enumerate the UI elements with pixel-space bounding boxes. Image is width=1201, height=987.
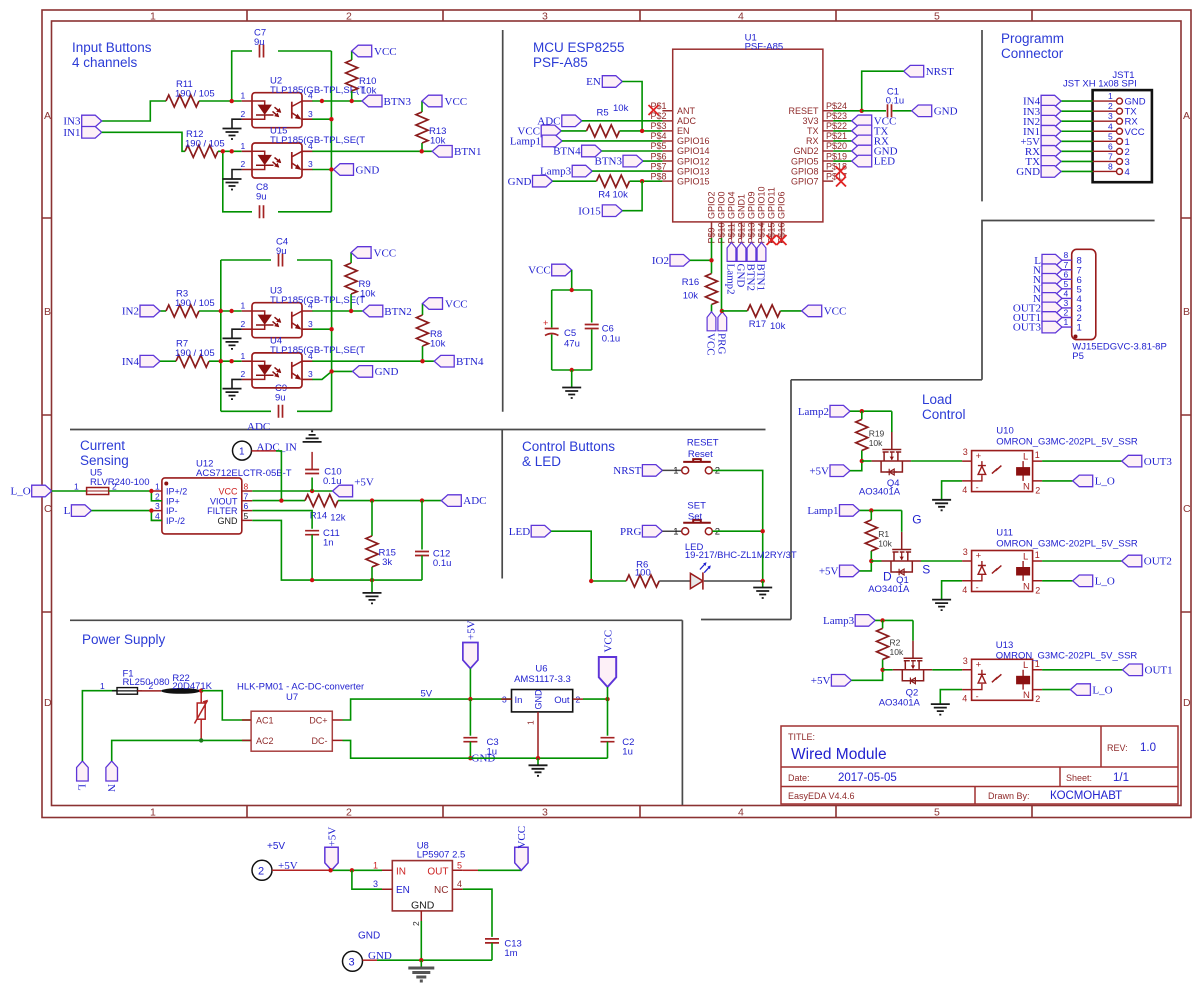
U1 bottom pin names rotated [707, 186, 787, 219]
svg-text:8: 8 [244, 482, 249, 492]
svg-text:Programm: Programm [1001, 31, 1064, 46]
svg-text:+5V: +5V [354, 477, 374, 489]
node SET rail [761, 529, 765, 533]
ruler tick top [247, 10, 1032, 21]
wire U5 to pins 1,2 [109, 491, 162, 501]
ground gray [420, 960, 422, 967]
svg-text:1: 1 [239, 446, 245, 457]
svg-text:Lamp1: Lamp1 [510, 136, 541, 148]
optocoupler U3 [241, 301, 314, 338]
resistor R19 [861, 411, 863, 461]
wire node to mosfet [883, 669, 893, 671]
U7 pin stubs [242, 720, 343, 740]
ground [363, 593, 382, 604]
net flag ADC [562, 115, 582, 127]
wire VCC down [607, 687, 609, 699]
net flag N p6 [1042, 274, 1062, 286]
wire R16 to VCC flag [711, 305, 713, 312]
wire R12 to U15 pin1 [218, 150, 242, 152]
svg-text:Date:: Date: [788, 773, 810, 783]
ground row2 [932, 600, 951, 611]
resistor R1 [870, 510, 872, 561]
svg-text:+5V: +5V [465, 620, 477, 640]
net flag VCC vertical [515, 847, 528, 870]
wire mosfet to U10 pin3 [911, 460, 962, 462]
svg-text:3: 3 [1108, 111, 1113, 121]
svg-text:RL250-080: RL250-080 [123, 677, 170, 688]
wire U4 pin4 to BTN4 [312, 360, 434, 362]
svg-text:GPIO4: GPIO4 [727, 191, 737, 219]
svg-text:Control: Control [922, 407, 966, 422]
node varistor/AC2 green [199, 738, 203, 742]
node C12 top [420, 498, 424, 502]
wire U2 pin4 to BTN3 [312, 100, 362, 102]
net flag +5V vertical [463, 643, 478, 669]
svg-text:GND: GND [508, 176, 532, 188]
net flag +5V [1041, 136, 1061, 148]
svg-text:R19: R19 [869, 428, 885, 438]
net flag Lamp2 [830, 405, 850, 417]
U1 left pin names [677, 106, 710, 186]
svg-text:P$24: P$24 [826, 101, 847, 111]
svg-text:LED: LED [509, 526, 530, 538]
svg-text:5: 5 [934, 807, 940, 819]
svg-text:4: 4 [1125, 167, 1130, 178]
node +5V/5V rail [468, 697, 472, 701]
svg-text:10k: 10k [869, 438, 883, 448]
svg-text:Control Buttons: Control Buttons [522, 439, 615, 454]
net flag Lamp2 under P$11 [727, 242, 736, 261]
svg-text:S: S [922, 563, 930, 577]
svg-text:OUT3: OUT3 [1144, 456, 1173, 468]
node P$8 [640, 179, 644, 183]
wire VIOUT pin7 [252, 500, 305, 502]
wire fuse to varistor [138, 690, 162, 692]
net flag IN1 [82, 127, 102, 139]
net flag IN2 [1041, 115, 1061, 127]
net flag VCC [552, 264, 572, 276]
ground under U15 pin2 [232, 170, 242, 180]
net flag VCC right of R17 [802, 305, 822, 317]
svg-text:IN1: IN1 [63, 127, 80, 139]
svg-text:PRG: PRG [620, 526, 641, 538]
net flag VCC (R5) [541, 125, 561, 137]
wire Lamp3 to P$7 [592, 170, 662, 172]
svg-text:Set: Set [688, 512, 703, 523]
net flag PRG [642, 525, 662, 537]
svg-text:VCC: VCC [374, 46, 397, 58]
wire P$9 down through R16 [711, 238, 713, 274]
svg-text:TX: TX [807, 126, 819, 136]
net flag IN1 [1041, 125, 1061, 137]
svg-text:MCU ESP8255: MCU ESP8255 [533, 40, 625, 55]
wire U15 pin3 to GND flag [312, 169, 333, 171]
net flag IN4 [1041, 95, 1061, 107]
svg-text:IN2: IN2 [122, 306, 139, 318]
wire L_O to U5 [52, 490, 87, 492]
node LED corner [589, 579, 593, 583]
svg-text:L: L [76, 784, 88, 791]
svg-text:OMRON_G3MC-202PL_5V_SSR: OMRON_G3MC-202PL_5V_SSR [996, 436, 1138, 447]
svg-text:R1: R1 [878, 529, 889, 539]
svg-text:IP-: IP- [166, 506, 178, 516]
node IO2/P$9 [709, 258, 713, 262]
svg-text:SET: SET [687, 501, 706, 512]
net flag BTN4 [434, 355, 454, 367]
svg-text:R5: R5 [597, 107, 609, 118]
net flag TX [1041, 156, 1061, 168]
wire OUT to VCC [463, 869, 478, 871]
wire VCC to R5 [561, 130, 586, 132]
net flag Lamp3 [572, 165, 592, 177]
wire VCC pin8 to +5V [252, 490, 332, 492]
resistor R6 [626, 575, 659, 587]
port circle 3 [343, 951, 363, 971]
svg-text:GND: GND [375, 366, 399, 378]
U1 bottom pin stubs [712, 222, 782, 243]
net flag NRST [904, 65, 924, 77]
net flag +5V [333, 485, 353, 497]
svg-text:1: 1 [1077, 323, 1082, 334]
wire ground stub [762, 581, 764, 588]
P5 inner numbers [1077, 256, 1082, 334]
U1 right pin names [788, 106, 819, 186]
svg-text:Drawn By:: Drawn By: [988, 791, 1030, 801]
net flag IN2 [140, 305, 160, 317]
wire +5V to node [860, 561, 872, 571]
divider input/mcu [502, 30, 504, 412]
svg-text:U11: U11 [996, 528, 1013, 539]
wire bottom rail with C9 [221, 410, 332, 412]
net flag VCC vertical [707, 312, 716, 331]
resistor R13 [421, 101, 423, 151]
net flag VCC above R8 [423, 298, 443, 310]
wire +5V to node [850, 461, 862, 471]
svg-text:AO3401A: AO3401A [868, 584, 910, 595]
varistor R22 element [195, 691, 208, 741]
svg-text:10k: 10k [770, 321, 786, 332]
svg-text:2: 2 [346, 807, 352, 819]
regulator U6 AMS1117-3.3 [512, 690, 573, 712]
wire P$24 to C1 [862, 110, 886, 112]
svg-text:N: N [105, 784, 117, 792]
node +5V flag [328, 868, 332, 872]
capacitor C10 [311, 478, 313, 492]
wire R14 to ADC flag [338, 500, 441, 502]
transistor Q2 AO3401A [893, 641, 933, 684]
net flag Lamp3 [855, 615, 875, 627]
svg-text:GPIO8: GPIO8 [791, 166, 819, 176]
relay U13 [962, 656, 1042, 704]
net flag GND (R4) [533, 175, 553, 187]
divider bottom of control buttons [701, 619, 791, 621]
svg-text:GPIO16: GPIO16 [677, 136, 710, 146]
node VCC/C2 [605, 697, 609, 701]
svg-text:HLK-PM01 - AC-DC-converter: HLK-PM01 - AC-DC-converter [237, 682, 364, 693]
U8 pin stubs [382, 870, 463, 921]
capacitor C7 [252, 28, 278, 58]
ground under U2 pin2 [232, 119, 242, 128]
no-connect X on P$16 [777, 235, 787, 245]
wire U3 pin3 to rail [312, 328, 331, 330]
svg-text:D: D [883, 570, 892, 584]
net flag IN4 [140, 355, 160, 367]
svg-text:+5V: +5V [267, 841, 285, 852]
svg-text:R4: R4 [598, 189, 610, 200]
svg-text:In: In [515, 695, 523, 706]
svg-text:1: 1 [150, 11, 156, 23]
node pin3 [149, 508, 153, 512]
wire IO2 to P$9 [690, 259, 712, 261]
net flag L vertical [77, 761, 89, 781]
svg-text:EN: EN [396, 885, 410, 896]
svg-text:2: 2 [346, 11, 352, 23]
ground under U4 pin2 [232, 379, 242, 388]
ruler tick left [42, 218, 52, 612]
net flag IO15 [602, 205, 622, 217]
wire C1 to GND flag [893, 110, 912, 112]
svg-text:10k: 10k [430, 339, 446, 350]
svg-text:BTN4: BTN4 [456, 356, 484, 368]
net flag N p7 [1042, 264, 1062, 276]
optocoupler U15 [241, 141, 314, 178]
net flag RX [1041, 146, 1061, 158]
svg-text:5: 5 [1064, 279, 1069, 289]
net flag L_O row1 [1073, 475, 1093, 487]
net flag L [1042, 254, 1062, 266]
svg-text:PSF-A85: PSF-A85 [533, 55, 588, 70]
wire DC- to bottom rail [343, 740, 608, 758]
wire U11 L to OUT2 [1042, 560, 1122, 562]
svg-text:IN4: IN4 [122, 356, 140, 368]
wire IN4 to R7 [160, 360, 176, 362]
P5 outer pin numbers [1064, 250, 1069, 327]
net flag OUT2 [1042, 302, 1062, 314]
converter U7 [251, 711, 332, 751]
no-connect X on P$15 [767, 235, 777, 245]
svg-text:3: 3 [542, 11, 548, 23]
svg-text:P$14: P$14 [756, 222, 766, 243]
wire U10 N to L_O [1042, 480, 1073, 482]
svg-text:VCC: VCC [824, 306, 847, 318]
node rail R15 [370, 578, 374, 582]
U1 left pin stubs [662, 111, 672, 181]
capacitor C1 [888, 104, 892, 117]
net flag VCC above R13 [422, 95, 442, 107]
net flag BTN3 [362, 95, 382, 107]
net flag L [71, 505, 91, 517]
net flag OUT1 [1123, 664, 1143, 676]
svg-text:U13: U13 [996, 640, 1013, 651]
svg-text:6: 6 [1064, 269, 1069, 279]
svg-text:GPIO6: GPIO6 [777, 191, 787, 219]
svg-text:B: B [44, 306, 51, 318]
svg-text:LP5907 2.5: LP5907 2.5 [417, 850, 466, 861]
wire U13 pin4 to ground [940, 690, 962, 705]
node C3 rail [468, 756, 472, 760]
svg-text:1u: 1u [622, 747, 633, 758]
net flag VCC vertical [599, 657, 616, 687]
svg-text:GPIO9: GPIO9 [747, 191, 757, 219]
net flag OUT3 [1122, 455, 1142, 467]
wire mosfet to U11 pin3 [921, 560, 962, 562]
net flag BTN3 [623, 155, 643, 167]
net flag BTN2 under P$13 [747, 242, 756, 261]
node Lamp1/R1 [869, 508, 873, 512]
svg-text:1/1: 1/1 [1113, 772, 1129, 784]
svg-text:B: B [1183, 306, 1190, 318]
resistor R15 [371, 501, 373, 536]
junction nodes group B [219, 309, 223, 313]
wire R3 to U3 pin1 [199, 310, 242, 312]
no-connect X on P$18 [836, 166, 846, 176]
wire R17 to VCC [780, 310, 801, 312]
svg-text:PSF-A85: PSF-A85 [745, 41, 784, 52]
net flag LED P$19 [852, 155, 872, 167]
svg-text:2: 2 [149, 681, 154, 691]
svg-text:OUT: OUT [427, 866, 448, 877]
svg-text:P$20: P$20 [826, 141, 847, 151]
svg-text:DC+: DC+ [309, 716, 327, 726]
svg-text:7: 7 [244, 491, 249, 501]
node P$3 [640, 129, 644, 133]
net flag GND group B [353, 366, 373, 378]
svg-text:3: 3 [542, 807, 548, 819]
wire EN branch [352, 870, 382, 889]
resistor R8 [422, 304, 424, 362]
svg-text:U10: U10 [996, 426, 1013, 437]
resistor R16 [706, 274, 718, 305]
wire Lamp2 to gate [850, 411, 892, 432]
net flag N p4 [1042, 293, 1062, 305]
ground power [529, 765, 548, 776]
net flag EN [602, 76, 622, 88]
fuse F1 RL250-080 [117, 688, 138, 695]
svg-text:2: 2 [258, 865, 264, 877]
wire R11 to U2 pin1 [199, 100, 242, 102]
svg-text:1: 1 [150, 807, 156, 819]
svg-text:GPIO11: GPIO11 [767, 187, 777, 219]
no-connect X on P$1 [649, 105, 659, 115]
svg-text:Current: Current [80, 438, 125, 453]
wire SET to right rail [713, 531, 763, 581]
svg-text:GPIO13: GPIO13 [677, 166, 710, 176]
svg-text:P$11: P$11 [726, 223, 736, 243]
svg-text:A: A [44, 110, 51, 122]
svg-text:R17: R17 [749, 319, 766, 330]
wire Lamp1 to gate [860, 510, 902, 532]
svg-text:Lamp1: Lamp1 [807, 505, 838, 517]
resistor R11 [166, 95, 199, 107]
svg-text:C: C [1183, 503, 1191, 515]
wire P$10 down to PRG [721, 238, 723, 312]
node bottom rail [570, 368, 574, 372]
U6 pin stubs [501, 699, 583, 722]
net flag N vertical [106, 761, 118, 781]
port circle 2 [252, 860, 272, 880]
svg-text:U6: U6 [535, 663, 547, 674]
svg-text:C5: C5 [564, 328, 576, 339]
net flag +5V row3 [831, 675, 851, 687]
svg-text:Wired Module: Wired Module [791, 746, 887, 763]
net flag BTN2 [363, 305, 383, 317]
svg-text:190 / 105: 190 / 105 [175, 348, 215, 359]
net flag OUT1 [1042, 312, 1062, 324]
wire Lamp3 to gate [875, 620, 913, 640]
wire to ground [571, 370, 573, 388]
divider right of power supply [681, 620, 683, 805]
P5 pin1 mark [1074, 335, 1078, 339]
flipped ground above C10 [303, 431, 322, 442]
svg-text:КОСМОНАВТ: КОСМОНАВТ [1050, 790, 1122, 802]
svg-text:1: 1 [373, 860, 378, 870]
svg-text:RX: RX [806, 136, 819, 146]
capacitor C4 [271, 237, 297, 267]
wire node to AC1 [201, 691, 251, 720]
wire R4 to P$8 [630, 180, 663, 182]
wire U13 L to OUT1 [1042, 669, 1122, 671]
wire FILTER pin6 to C11 [252, 511, 312, 529]
net flag BTN1 under P$14 [757, 242, 766, 261]
resistor R10 [351, 51, 353, 101]
button SET [682, 520, 713, 535]
ground under U3 pin2 [232, 329, 242, 338]
svg-text:C: C [44, 503, 52, 515]
wire +5V down to rail [469, 669, 471, 700]
svg-text:VCC: VCC [705, 333, 717, 356]
net flag RX P$21 [852, 135, 872, 147]
svg-text:ADC: ADC [247, 421, 270, 433]
svg-text:P$13: P$13 [746, 222, 756, 243]
U1 left P$ numbers [650, 101, 666, 181]
resistor R4 [597, 175, 630, 187]
svg-text:P$3: P$3 [650, 121, 666, 131]
button RESET [682, 459, 713, 474]
svg-text:190 / 105: 190 / 105 [175, 89, 215, 100]
wire N to AC2 [112, 740, 251, 761]
ruler numbers [44, 11, 1191, 819]
ground [753, 588, 772, 599]
svg-text:TLP185(GB-TPL,SE(T: TLP185(GB-TPL,SE(T [270, 135, 365, 146]
svg-text:GND2: GND2 [793, 146, 818, 156]
wire U8 GND down [420, 921, 422, 960]
svg-text:EN: EN [586, 76, 601, 88]
net flag ADC [441, 495, 461, 507]
svg-text:BTN3: BTN3 [595, 156, 623, 168]
svg-text:+: + [543, 318, 548, 328]
svg-text:R2: R2 [890, 637, 901, 647]
JST1 pin numbers [1108, 91, 1113, 171]
wire +5V to node [851, 670, 882, 681]
svg-text:19-217/BHC-ZL1M2RY/3T: 19-217/BHC-ZL1M2RY/3T [685, 550, 797, 561]
svg-text:WJ15EDGVC-3.81-8P: WJ15EDGVC-3.81-8P [1072, 342, 1167, 353]
svg-text:L_O: L_O [1092, 684, 1112, 696]
svg-text:6: 6 [244, 501, 249, 511]
net flag Lamp1 [542, 135, 562, 147]
wire ADC_IN to VIOUT [252, 450, 277, 452]
svg-text:P$4: P$4 [650, 131, 666, 141]
svg-text:BTN1: BTN1 [755, 264, 767, 292]
svg-text:GPIO0: GPIO0 [717, 191, 727, 219]
net flag OUT2 [1122, 555, 1142, 567]
net flag OUT3 [1042, 321, 1062, 333]
svg-text:P$5: P$5 [650, 141, 666, 151]
net flag GND right of C1 [912, 105, 932, 117]
svg-text:190 / 105: 190 / 105 [185, 139, 225, 150]
svg-text:RLVR240-100: RLVR240-100 [90, 477, 150, 488]
JST1 net wires [1061, 101, 1093, 171]
svg-text:4: 4 [1064, 288, 1069, 298]
